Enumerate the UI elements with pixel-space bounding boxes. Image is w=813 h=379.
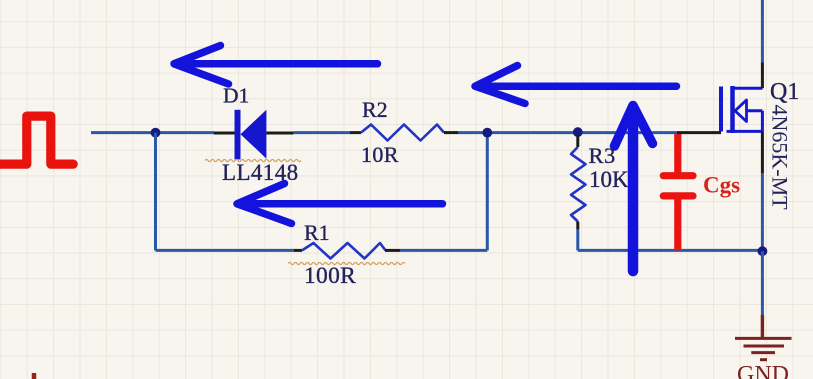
svg-text:GND: GND xyxy=(737,362,789,379)
resistor R3 xyxy=(571,147,586,222)
pulse source symbol xyxy=(0,116,73,164)
svg-text:R1: R1 xyxy=(304,220,330,245)
value label 4N65K-MT xyxy=(768,105,793,211)
MOSFET Q1 xyxy=(721,86,762,133)
current flow arrow A2 middle xyxy=(237,184,443,224)
svg-text:Q1: Q1 xyxy=(770,79,799,105)
node: R3 top junction xyxy=(573,127,583,137)
wire: diode to R2 xyxy=(294,131,350,134)
wire: R2 to MOSFET gate xyxy=(458,131,677,134)
resistor R2 left pin xyxy=(350,131,361,134)
diode D1 xyxy=(235,110,267,160)
current flow arrow A4 vertical xyxy=(615,106,653,272)
wire: lower loop right riser xyxy=(486,133,489,251)
squiggle under 100R xyxy=(288,262,405,264)
wire: input to diode D1 xyxy=(91,131,214,134)
value label LL4148 xyxy=(222,160,299,185)
capacitor Cgs top lead xyxy=(674,134,681,174)
label GND xyxy=(737,362,789,379)
wire: lower loop bottom right xyxy=(400,249,487,252)
resistor R3 top pin xyxy=(576,135,579,147)
current flow arrow A3 upper right xyxy=(475,66,677,104)
wire: source to bottom junction xyxy=(761,173,764,251)
value label 100R xyxy=(304,263,356,289)
svg-text:4N65K-MT: 4N65K-MT xyxy=(768,105,793,211)
label Q1 xyxy=(770,79,799,105)
diode D1 left pin xyxy=(214,132,235,135)
svg-text:Cgs: Cgs xyxy=(703,173,740,198)
resistor R3 bottom pin xyxy=(576,222,579,230)
label R3 xyxy=(589,143,616,168)
value label 10K xyxy=(589,167,629,192)
resistor R1 left pin xyxy=(294,249,302,252)
svg-text:10R: 10R xyxy=(361,142,399,167)
node: source bottom junction xyxy=(758,246,768,256)
wire: junction to ground xyxy=(761,251,764,315)
wire: lower loop bottom left xyxy=(156,249,295,252)
value label 10R xyxy=(361,142,399,167)
MOSFET Q1 source pin xyxy=(761,131,764,173)
wire: R3 bottom drop xyxy=(576,230,579,251)
node: input junction xyxy=(151,128,161,138)
resistor R2 right pin xyxy=(444,131,458,134)
diode D1 right pin xyxy=(266,132,293,135)
MOSFET Q1 gate pin xyxy=(677,131,721,134)
wire: bottom right rail xyxy=(578,249,763,252)
label R2 xyxy=(362,97,388,122)
svg-text:10K: 10K xyxy=(589,167,629,192)
resistor R1 xyxy=(302,243,386,259)
current flow arrow A1 top left xyxy=(174,46,378,85)
label D1 xyxy=(223,84,249,108)
svg-text:R2: R2 xyxy=(362,97,388,122)
node: R2 output junction xyxy=(482,128,492,138)
squiggle under LL4148 xyxy=(205,159,301,161)
resistor R2 xyxy=(361,125,444,141)
wire: lower loop left drop xyxy=(154,133,157,251)
capacitor Cgs bottom lead xyxy=(674,198,681,250)
resistor R1 right pin xyxy=(385,249,400,252)
capacitor Cgs xyxy=(663,176,693,196)
svg-text:100R: 100R xyxy=(304,263,356,289)
partial pulse mark bottom left xyxy=(32,373,37,379)
ground xyxy=(735,315,792,360)
MOSFET Q1 drain pin xyxy=(761,63,764,89)
wire: drain to top edge xyxy=(761,0,764,63)
label Cgs xyxy=(703,173,740,198)
label R1 xyxy=(304,220,330,245)
